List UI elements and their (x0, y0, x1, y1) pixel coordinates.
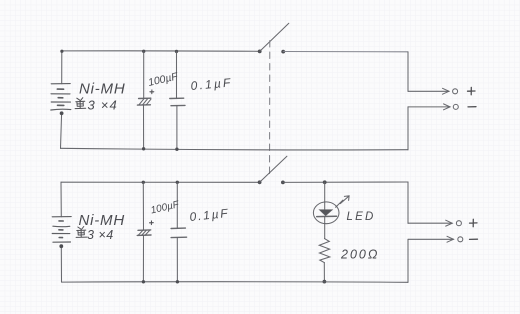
capacitor C3 100uF electrolytic (circuit 2) (137, 181, 151, 284)
switch S1b lever (260, 156, 287, 182)
label Ni-MH (circuit 1) (79, 81, 126, 98)
junction dot resistor bottom (circuit 2) (323, 280, 327, 284)
switch S1a lever (260, 23, 289, 51)
svg-text:LED: LED (347, 211, 376, 223)
switch gang link (dashed) (269, 41, 271, 177)
wire right vertical upper (circuit 1) (407, 52, 409, 91)
wire bottom rail (circuit 1) (61, 148, 409, 150)
label + (circuit 1 terminal) (468, 87, 476, 94)
label tan3 x4 (circuit 2) (76, 227, 114, 243)
svg-text:200Ω: 200Ω (340, 248, 379, 262)
output terminal + (circuit 2) (408, 220, 461, 226)
label LED (347, 211, 376, 223)
wire top rail right segment (circuit 2) (283, 181, 408, 183)
capacitor C4 0.1uF (circuit 2) (171, 181, 187, 284)
output terminal - (circuit 2) (409, 236, 463, 242)
output terminal + (circuit 1) (408, 88, 458, 94)
switch S1b contact dot right (281, 181, 285, 185)
wire left vertical upper (circuit 2) (60, 182, 62, 217)
wire left vertical lower (circuit 1) (61, 113, 62, 148)
capacitor C1 100uF electrolytic (circuit 1) (137, 50, 151, 151)
svg-text:3 ×4: 3 ×4 (88, 98, 118, 113)
svg-text:Ni-MH: Ni-MH (79, 81, 126, 98)
LED D1 (313, 202, 339, 224)
switch S1a contact dot right (281, 50, 285, 54)
label 0.1uF (circuit 2) (189, 206, 230, 224)
battery BT1 Ni-MH (circuit 1) (51, 84, 71, 116)
wire top rail right segment (circuit 1) (283, 51, 408, 53)
wire resistor to bottom rail (323, 263, 325, 282)
wire bottom rail (circuit 2) (62, 281, 409, 284)
label + (circuit 2 terminal) (470, 219, 478, 226)
junction dot LED branch top (circuit 2) (323, 180, 327, 184)
wire right vertical lower (circuit 1) (407, 107, 409, 150)
label Ni-MH (circuit 2) (79, 212, 126, 229)
label 200ohm (340, 248, 379, 262)
switch S1a contact dot left (258, 50, 262, 54)
wire left vertical lower (circuit 2) (60, 246, 62, 282)
label 100uF (circuit 1) (147, 70, 179, 89)
junction dot top-left corner (circuit 1) (60, 50, 63, 53)
svg-text:Ni-MH: Ni-MH (79, 212, 126, 229)
polarity + of C1 (150, 90, 154, 94)
wire right vertical upper (circuit 2) (407, 182, 409, 223)
svg-text:3 ×4: 3 ×4 (87, 228, 114, 242)
wire top rail left segment (circuit 1) (62, 50, 259, 52)
wire LED cathode to resistor (324, 217, 326, 239)
wire LED anode lead (324, 182, 326, 209)
label tan3 x4 (circuit 1) (75, 98, 118, 113)
label - (circuit 1 terminal) (468, 106, 476, 108)
wire right vertical lower (circuit 2) (407, 239, 409, 282)
output terminal - (circuit 1) (408, 104, 458, 110)
polarity + of C3 (150, 221, 154, 225)
label 0.1uF (circuit 1) (190, 75, 233, 93)
switch S1b contact dot left (258, 180, 262, 184)
wire left vertical upper (circuit 1) (61, 51, 63, 83)
resistor R1 200ohm (319, 239, 330, 263)
wire top rail left segment (circuit 2) (61, 181, 259, 183)
LED light-emission arrow (336, 196, 350, 207)
label 100uF (circuit 2) (150, 199, 181, 216)
label - (circuit 2 terminal) (470, 238, 478, 240)
capacitor C2 0.1uF (circuit 1) (170, 50, 185, 151)
battery BT2 Ni-MH (circuit 2) (52, 217, 71, 249)
